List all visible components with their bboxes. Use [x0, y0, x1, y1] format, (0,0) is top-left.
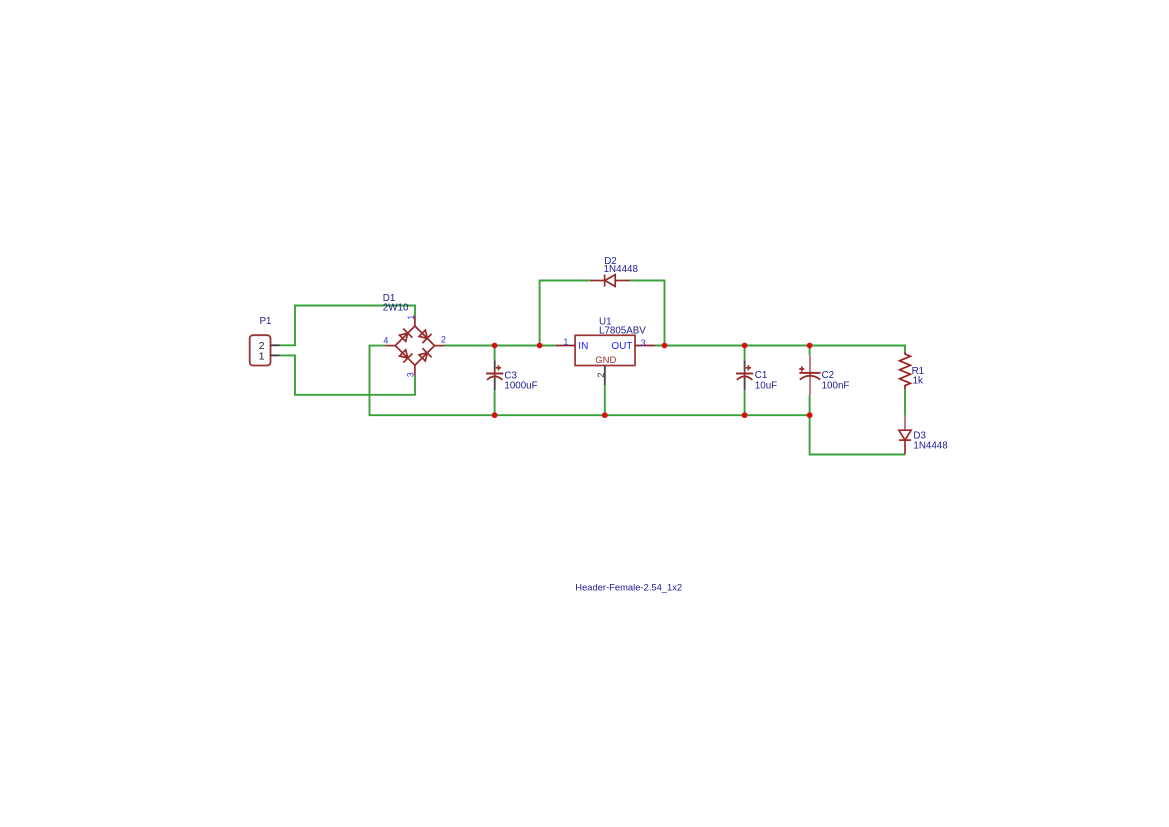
diode D3: [899, 415, 911, 454]
svg-text:1N4448: 1N4448: [604, 264, 639, 275]
wire C2 bottom: [809, 395, 811, 415]
connector P1: [250, 335, 280, 365]
svg-text:P1: P1: [260, 316, 272, 327]
svg-text:2W10: 2W10: [383, 303, 409, 314]
svg-text:GND: GND: [595, 355, 616, 366]
wire P1 pin1 to D1 pin3: [280, 355, 415, 394]
junction dot bottom rail at C2: [807, 412, 813, 418]
svg-text:1: 1: [259, 352, 265, 363]
svg-text:10uF: 10uF: [755, 381, 777, 392]
diode on top-left side: [400, 333, 408, 341]
svg-text:100nF: 100nF: [822, 381, 850, 392]
junction dot top rail at D2 right: [662, 343, 668, 349]
diode on bottom-left side: [400, 350, 408, 358]
regulator U1: [556, 335, 656, 385]
diode on bottom-right side: [419, 353, 427, 361]
wire C1 bottom: [744, 390, 746, 415]
svg-text:2: 2: [259, 341, 265, 352]
junction dot top rail at C1: [742, 343, 748, 349]
wire D2 right leg: [630, 281, 665, 346]
svg-text:1k: 1k: [913, 376, 923, 387]
capacitor C1: [736, 360, 753, 390]
svg-text:1000uF: 1000uF: [504, 381, 537, 392]
wire D2 left leg: [540, 281, 590, 346]
wire D3 bottom to C2 bottom rail: [810, 415, 905, 454]
junction dot top rail at C3: [492, 343, 498, 349]
svg-text:C2: C2: [822, 370, 835, 381]
wire C3 bottom: [494, 390, 496, 415]
diode on top-right side: [419, 330, 427, 338]
wire C1 top: [744, 346, 746, 361]
wire D1 pin2 to U1 pin1 (top rail left): [445, 345, 556, 347]
junction dot bottom rail at C3: [492, 412, 498, 418]
wire P1 pin2 to D1 pin1: [280, 306, 415, 346]
junction dot bottom rail at C1: [742, 412, 748, 418]
svg-text:1N4448: 1N4448: [913, 440, 948, 451]
svg-text:L7805ABV: L7805ABV: [599, 326, 646, 337]
junction dot top rail at C2: [807, 343, 813, 349]
wire U1 pin3 to R1 (top rail right): [655, 346, 905, 352]
svg-text:3: 3: [641, 338, 646, 348]
svg-text:2: 2: [441, 334, 446, 344]
wire C3 top: [494, 346, 496, 361]
svg-text:1: 1: [563, 337, 568, 347]
junction dot bottom rail at U1 pin2: [602, 412, 608, 418]
svg-text:Header-Female-2.54_1x2: Header-Female-2.54_1x2: [575, 581, 682, 592]
wire R1 bottom to D3: [904, 389, 906, 415]
svg-text:3: 3: [406, 372, 416, 377]
wire U1 pin2 to bottom rail: [604, 385, 606, 415]
svg-text:IN: IN: [578, 341, 588, 352]
wire C2 top: [809, 346, 811, 356]
svg-text:4: 4: [383, 335, 388, 345]
capacitor C2: [799, 356, 820, 396]
capacitor C3: [486, 360, 503, 390]
svg-text:2: 2: [596, 373, 606, 378]
wire D1 pin4 to bottom rail: [370, 346, 810, 416]
svg-text:C1: C1: [755, 370, 768, 381]
bridge rectifier D1: [385, 316, 444, 376]
diode D2: [590, 275, 630, 287]
svg-text:OUT: OUT: [611, 341, 632, 352]
svg-text:1: 1: [406, 315, 416, 320]
resistor R1: [900, 352, 911, 390]
junction dot top rail at D2 left: [537, 343, 543, 349]
